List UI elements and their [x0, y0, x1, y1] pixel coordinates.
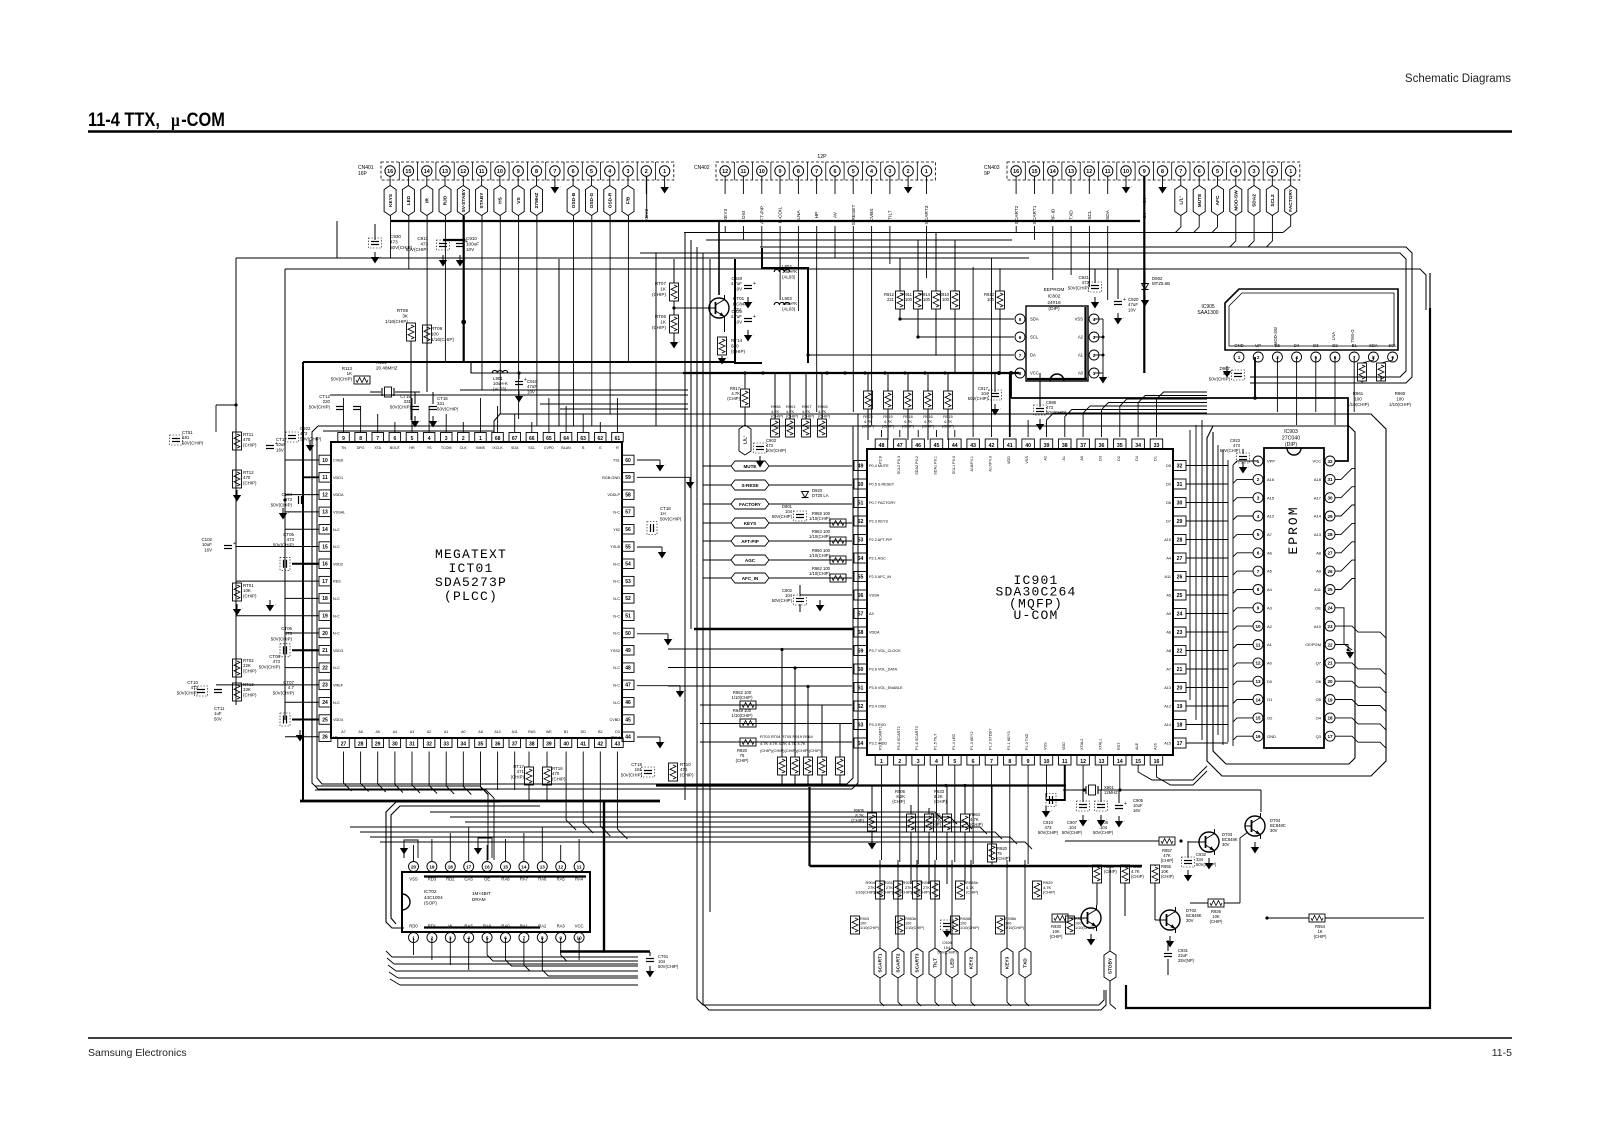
- wire: [1034, 226, 1036, 240]
- svg-text:Samsung Electronics: Samsung Electronics: [88, 1047, 187, 1059]
- svg-text:A1: A1: [1078, 353, 1084, 358]
- svg-text:AFT-PIP: AFT-PIP: [741, 539, 759, 544]
- svg-text:10: 10: [322, 458, 328, 464]
- svg-text:MUTE: MUTE: [1197, 193, 1203, 207]
- svg-text:A5: A5: [375, 730, 379, 734]
- svg-text:23: 23: [1327, 624, 1333, 629]
- svg-text:VS: VS: [516, 197, 522, 204]
- svg-text:A17: A17: [1314, 495, 1322, 500]
- svg-text:50V(CHIP): 50V(CHIP): [658, 964, 679, 969]
- svg-text:A10: A10: [1314, 624, 1322, 629]
- svg-text:19: 19: [1327, 697, 1333, 702]
- junction: [863, 371, 866, 374]
- capacitor C916: [1046, 793, 1056, 807]
- svg-text:SDA1 P0.1: SDA1 P0.1: [934, 456, 938, 475]
- svg-text:9: 9: [517, 169, 520, 175]
- capacitor C922a: [286, 426, 322, 452]
- svg-text:(CHIP)(CHIP)(CHIP)(CHIP)(CHIP): (CHIP)(CHIP)(CHIP)(CHIP)(CHIP): [760, 748, 822, 753]
- svg-text:15: 15: [1255, 716, 1261, 721]
- svg-text:S-RESET: S-RESET: [851, 205, 857, 226]
- wire: [285, 511, 319, 513]
- capacitor CT19: [621, 762, 655, 777]
- resistor R915: [942, 373, 955, 440]
- resistor RT01: [791, 668, 800, 785]
- wire: [1335, 718, 1386, 730]
- IC IC802 EEPROM body: [1026, 306, 1088, 381]
- svg-text:A14: A14: [1164, 723, 1171, 727]
- resistor RT04: [836, 724, 845, 786]
- wire IC905 pin2 drop: [1253, 357, 1257, 400]
- capacitor C912: [456, 236, 479, 267]
- capacitor CT01: [646, 952, 679, 978]
- svg-text:1: 1: [880, 759, 883, 765]
- wire: [566, 752, 576, 831]
- wire: [952, 978, 956, 1006]
- svg-text:7: 7: [1019, 353, 1022, 358]
- net flag AFT-PIP: [703, 536, 852, 546]
- svg-text:IC903: IC903: [1284, 429, 1298, 435]
- svg-text:A10: A10: [1164, 538, 1171, 542]
- svg-text:AGC: AGC: [745, 558, 756, 563]
- capacitor C913: [515, 371, 538, 402]
- svg-text:16V: 16V: [1133, 808, 1141, 813]
- capacitor D901: [772, 504, 807, 521]
- svg-text:A11: A11: [1165, 575, 1171, 579]
- svg-text:20: 20: [1177, 685, 1183, 691]
- svg-text:Q7: Q7: [1316, 661, 1322, 666]
- IC IC901 SDA30C264 U-COM body: [867, 449, 1173, 755]
- svg-text:A0: A0: [1080, 456, 1084, 461]
- svg-text:9: 9: [1027, 759, 1030, 765]
- svg-text:SCL: SCL: [1030, 335, 1039, 340]
- resistor R954: [1265, 914, 1424, 939]
- svg-text:(CHIP): (CHIP): [1131, 874, 1144, 879]
- svg-text:50V(CHIP): 50V(CHIP): [177, 690, 199, 695]
- svg-text:S-RESE: S-RESE: [741, 483, 758, 488]
- svg-text:D3: D3: [615, 730, 620, 734]
- svg-text:15: 15: [1135, 759, 1141, 765]
- junction: [951, 865, 954, 868]
- wire: [541, 827, 543, 861]
- IC903 left pins 1..16: [1253, 456, 1276, 741]
- svg-text:12: 12: [460, 169, 466, 175]
- svg-text:25: 25: [322, 717, 328, 723]
- wire: [546, 785, 548, 801]
- svg-text:R926b: R926b: [960, 917, 971, 921]
- svg-text:7: 7: [1257, 569, 1260, 574]
- wire: [1233, 479, 1253, 483]
- svg-text:50V(CHIP): 50V(CHIP): [621, 772, 643, 777]
- wire: [917, 765, 919, 785]
- svg-text:1/10(CHIP): 1/10(CHIP): [809, 534, 831, 539]
- wire: [1186, 539, 1228, 541]
- svg-text:100: 100: [987, 297, 995, 302]
- wire: [493, 421, 495, 432]
- capacitor C932: [1179, 839, 1216, 881]
- svg-text:+: +: [1123, 297, 1126, 303]
- wire: [1335, 700, 1386, 712]
- svg-text:11-5: 11-5: [1492, 1047, 1512, 1059]
- svg-text:LED: LED: [950, 958, 956, 968]
- svg-text:50V(CHIP): 50V(CHIP): [968, 396, 989, 401]
- wire: [760, 247, 1412, 383]
- wire: [344, 752, 352, 792]
- svg-text:KEY3: KEY3: [723, 209, 729, 222]
- wire: [970, 860, 972, 948]
- svg-text:A8: A8: [1166, 649, 1171, 653]
- svg-text:44: 44: [625, 735, 631, 741]
- svg-text:3: 3: [1257, 496, 1260, 501]
- svg-text:5V: 5V: [1142, 196, 1148, 203]
- svg-text:A12: A12: [1267, 514, 1275, 519]
- svg-text:6: 6: [1257, 551, 1260, 556]
- wire: [386, 951, 392, 957]
- svg-text:8: 8: [1019, 371, 1022, 376]
- svg-text:LB: LB: [333, 735, 338, 739]
- svg-text:YSL: YSL: [613, 459, 620, 463]
- svg-text:DT20 LA: DT20 LA: [812, 493, 829, 498]
- resistor R952: [732, 690, 756, 709]
- wire: [380, 842, 1032, 849]
- wire: [387, 958, 394, 964]
- svg-text:VDD3: VDD3: [333, 649, 343, 653]
- wire: [315, 786, 488, 860]
- svg-text:RST: RST: [1117, 742, 1121, 750]
- wire: [899, 765, 901, 785]
- IC ICT01 top pins 9..61: [338, 433, 623, 451]
- svg-text:VDDA: VDDA: [333, 493, 344, 497]
- capacitor CT12: [309, 394, 361, 410]
- capacitor C908: [1093, 790, 1114, 835]
- wire VSSA: [800, 595, 852, 597]
- wire: [370, 837, 1017, 844]
- svg-text:9: 9: [1257, 606, 1260, 611]
- svg-text:100: 100: [942, 297, 950, 302]
- svg-text:1/10(CHIP): 1/10(CHIP): [809, 516, 831, 521]
- svg-text:AV: AV: [833, 211, 839, 218]
- resistor R958: [771, 373, 784, 437]
- svg-text:P1.3 KEY2: P1.3 KEY2: [970, 731, 974, 750]
- svg-text:50V(CHIP): 50V(CHIP): [1068, 285, 1090, 290]
- svg-text:16: 16: [1154, 759, 1160, 765]
- svg-text:100: 100: [960, 922, 966, 926]
- svg-text:10: 10: [1255, 624, 1261, 629]
- bus DRAM thick: [300, 800, 660, 803]
- svg-text:18: 18: [1327, 716, 1333, 721]
- wire DRAM loop: [386, 802, 500, 928]
- wire DRAM loop2: [391, 806, 540, 924]
- ground: [637, 686, 686, 698]
- capacitor C911: [406, 236, 450, 267]
- wire: [1233, 553, 1253, 557]
- svg-text:50V(CHIP): 50V(CHIP): [271, 502, 293, 507]
- wire: [465, 822, 972, 829]
- svg-text:D5: D5: [1166, 464, 1171, 468]
- wire: [486, 845, 488, 861]
- svg-text:A1: A1: [1267, 642, 1273, 647]
- svg-text:30: 30: [1177, 500, 1183, 506]
- svg-text:3: 3: [445, 436, 448, 442]
- wire: [1335, 736, 1386, 748]
- svg-text:26: 26: [1327, 569, 1333, 574]
- net flag STDBY: [1104, 866, 1116, 1009]
- svg-text:24#16: 24#16: [1047, 300, 1061, 306]
- svg-text:SDA5273P: SDA5273P: [435, 575, 507, 590]
- svg-text:32: 32: [1177, 463, 1183, 469]
- wire: [900, 318, 1014, 320]
- svg-text:VSS: VSS: [1044, 742, 1048, 750]
- svg-text:40: 40: [1025, 443, 1031, 449]
- svg-text:P3.5 VOL_ENABLE: P3.5 VOL_ENABLE: [869, 686, 903, 690]
- svg-text:11: 11: [741, 169, 747, 175]
- svg-text:SCL: SCL: [1389, 343, 1398, 348]
- wire: [1233, 681, 1253, 685]
- svg-text:17: 17: [322, 579, 328, 585]
- resistor R921: [928, 785, 951, 884]
- svg-text:24: 24: [1327, 606, 1333, 611]
- svg-text:A1: A1: [1062, 456, 1066, 461]
- wire: [991, 765, 993, 785]
- wire: [1107, 226, 1109, 300]
- wire: [1047, 413, 1208, 437]
- svg-text:RD0: RD0: [409, 924, 418, 929]
- wire: [573, 216, 575, 427]
- capacitor C104: [271, 492, 302, 520]
- svg-text:N-C: N-C: [613, 562, 620, 566]
- junction: [843, 371, 846, 374]
- svg-text:C910: C910: [466, 236, 477, 241]
- svg-text:4: 4: [428, 436, 431, 442]
- svg-text:RT03 RT04 RT05 R919 R964: RT03 RT04 RT05 R919 R964: [760, 734, 813, 739]
- svg-text:2: 2: [907, 169, 910, 175]
- svg-text:P2.6: P2.6: [879, 456, 883, 464]
- svg-text:60: 60: [625, 458, 631, 464]
- svg-text:8: 8: [359, 436, 362, 442]
- svg-text:8: 8: [535, 169, 538, 175]
- wire OE: [1335, 608, 1352, 650]
- wire: [971, 978, 975, 1006]
- wire: [390, 979, 400, 985]
- wire: [1189, 430, 1191, 700]
- wire 5V-STABY thick: [443, 216, 466, 363]
- wire: [236, 257, 1029, 259]
- wire: [617, 752, 627, 840]
- svg-text:28: 28: [1327, 532, 1333, 537]
- capacitor C102: [202, 537, 237, 552]
- wire: [1052, 226, 1054, 280]
- junction: [1024, 865, 1027, 868]
- svg-text:12: 12: [1086, 169, 1092, 175]
- svg-text:50V(CHIP): 50V(CHIP): [1220, 448, 1241, 453]
- wire 5V pin thick: [1143, 176, 1145, 373]
- wire: [1186, 502, 1228, 504]
- wire: [1335, 663, 1386, 675]
- svg-text:31: 31: [409, 741, 415, 747]
- wire: [600, 752, 610, 837]
- wire: [1088, 226, 1090, 287]
- svg-text:1/16(CHIP): 1/16(CHIP): [873, 890, 894, 895]
- wire: [936, 430, 938, 437]
- wire: [343, 398, 345, 433]
- wire: [236, 615, 319, 617]
- connector label CN402: [694, 165, 710, 171]
- svg-text:INMS: INMS: [476, 446, 486, 450]
- svg-text:30V: 30V: [1270, 828, 1278, 833]
- capacitor C930: [369, 224, 413, 264]
- wire: [668, 685, 852, 687]
- junction: [897, 865, 900, 868]
- wire: [880, 978, 884, 1006]
- svg-text:1/10(CHIP): 1/10(CHIP): [905, 926, 925, 930]
- wire: [548, 398, 550, 433]
- wire: [1024, 860, 1026, 948]
- svg-text:A10: A10: [494, 730, 500, 734]
- svg-text:45: 45: [625, 717, 631, 723]
- resistor R958b: [956, 880, 979, 899]
- wire: [413, 845, 415, 861]
- svg-text:X101: X101: [376, 360, 387, 365]
- IC IC901 bottom pins 1..16: [875, 726, 1162, 765]
- svg-text:42: 42: [989, 443, 995, 449]
- wire: [303, 476, 319, 478]
- svg-text:23: 23: [322, 683, 328, 689]
- wire: [285, 736, 319, 738]
- inductor L901: [492, 370, 508, 391]
- svg-text:A7: A7: [1267, 532, 1273, 537]
- svg-text:A4: A4: [1166, 557, 1171, 561]
- wire: [1186, 613, 1228, 615]
- connector CN403: [1007, 162, 1300, 224]
- svg-text:50V(CHIP): 50V(CHIP): [1038, 830, 1059, 835]
- svg-text:CN403: CN403: [984, 165, 1000, 171]
- svg-text:18: 18: [322, 596, 328, 602]
- wire: [449, 833, 451, 861]
- svg-text:44: 44: [952, 443, 958, 449]
- svg-text:VDDA: VDDA: [869, 631, 880, 635]
- svg-text:13: 13: [1255, 679, 1261, 684]
- svg-text:A13: A13: [1164, 686, 1171, 690]
- wire: [460, 389, 688, 391]
- capacitor C907: [1062, 790, 1090, 835]
- wire: [1233, 718, 1253, 722]
- svg-text:100: 100: [1354, 396, 1362, 401]
- wire: [627, 216, 629, 364]
- svg-text:12: 12: [322, 492, 328, 498]
- capacitor CT10: [177, 680, 208, 696]
- svg-text:OSI: OSI: [741, 211, 747, 219]
- resistor R948: [732, 708, 756, 727]
- svg-text:D2: D2: [1117, 456, 1121, 461]
- wire: [1248, 216, 1254, 248]
- svg-text:TILT: TILT: [888, 210, 894, 220]
- svg-text:56: 56: [625, 527, 631, 533]
- svg-text:30V: 30V: [1222, 842, 1230, 847]
- resistor R911: [902, 240, 922, 337]
- wire: [1082, 765, 1084, 790]
- R961 label: [1347, 391, 1369, 407]
- svg-text:A11: A11: [512, 730, 518, 734]
- svg-text:3: 3: [627, 169, 630, 175]
- svg-text:43: 43: [970, 443, 976, 449]
- svg-text:5: 5: [953, 759, 956, 765]
- wire: [1157, 765, 1208, 785]
- 5V label: [1142, 196, 1148, 203]
- svg-text:IR: IR: [424, 198, 430, 203]
- svg-text:100uF: 100uF: [466, 242, 479, 247]
- svg-text:A14: A14: [1314, 514, 1322, 519]
- wire: [1233, 534, 1253, 538]
- svg-text:9: 9: [779, 169, 782, 175]
- wire: [954, 785, 956, 862]
- wire: [991, 258, 993, 437]
- IC ICT01 right pins 60..44: [602, 455, 634, 741]
- svg-text:50V(CHIP): 50V(CHIP): [406, 247, 429, 252]
- junction: [1006, 865, 1009, 868]
- capacitor C920: [1114, 269, 1139, 325]
- svg-text:6: 6: [834, 169, 837, 175]
- footer left: Samsung Electronics: [88, 1047, 187, 1059]
- wire ring outer: [312, 414, 858, 789]
- wire: [897, 860, 899, 948]
- junction: [761, 371, 764, 374]
- wire: [565, 406, 567, 433]
- wire: [700, 723, 852, 725]
- net flag FACTORY: [703, 499, 852, 509]
- junction IC802 VCC: [997, 371, 1013, 375]
- svg-text:19: 19: [1177, 704, 1183, 710]
- resistor R930: [910, 880, 940, 899]
- capacitor CT05: [259, 532, 319, 669]
- svg-text:SCL1 P0.0: SCL1 P0.0: [952, 456, 956, 474]
- svg-text:(CHIP): (CHIP): [771, 414, 784, 419]
- IC IC903 EPROM body: [1264, 448, 1324, 748]
- svg-text:BOUT: BOUT: [390, 446, 401, 450]
- wire: [431, 938, 433, 960]
- wire: [400, 984, 638, 986]
- connector label CN403: [984, 165, 1000, 177]
- svg-text:A18: A18: [1314, 477, 1322, 482]
- svg-text:N-C: N-C: [613, 684, 620, 688]
- svg-text:ICT01: ICT01: [448, 561, 493, 576]
- wire: [879, 860, 881, 948]
- svg-text:14: 14: [1117, 759, 1123, 765]
- resistor R953b: [896, 916, 925, 934]
- svg-text:3: 3: [1253, 169, 1256, 175]
- svg-text:10: 10: [1123, 169, 1129, 175]
- IC ICT01 MEGATEXT SDA5273P body: [331, 442, 622, 738]
- inductor L903: [774, 296, 797, 311]
- svg-text:N-C: N-C: [333, 632, 340, 636]
- svg-text:4: 4: [935, 759, 938, 765]
- svg-text:RES: RES: [333, 580, 341, 584]
- svg-text:TXD: TXD: [1069, 210, 1075, 220]
- capacitor CT06: [271, 557, 319, 641]
- ground: [637, 477, 696, 488]
- svg-text:BLAN: BLAN: [561, 446, 571, 450]
- wire: [411, 398, 413, 433]
- svg-text:100: 100: [905, 297, 913, 302]
- wire: [285, 632, 319, 634]
- ground: [637, 460, 666, 472]
- svg-text:5: 5: [852, 169, 855, 175]
- footer right: 11-5: [1492, 1047, 1512, 1059]
- wire: [497, 406, 499, 433]
- diode D920: [802, 488, 829, 498]
- wire: [392, 956, 638, 958]
- svg-text:N-C: N-C: [333, 614, 340, 618]
- svg-text:13: 13: [1099, 759, 1105, 765]
- net flag TILT: [929, 948, 941, 978]
